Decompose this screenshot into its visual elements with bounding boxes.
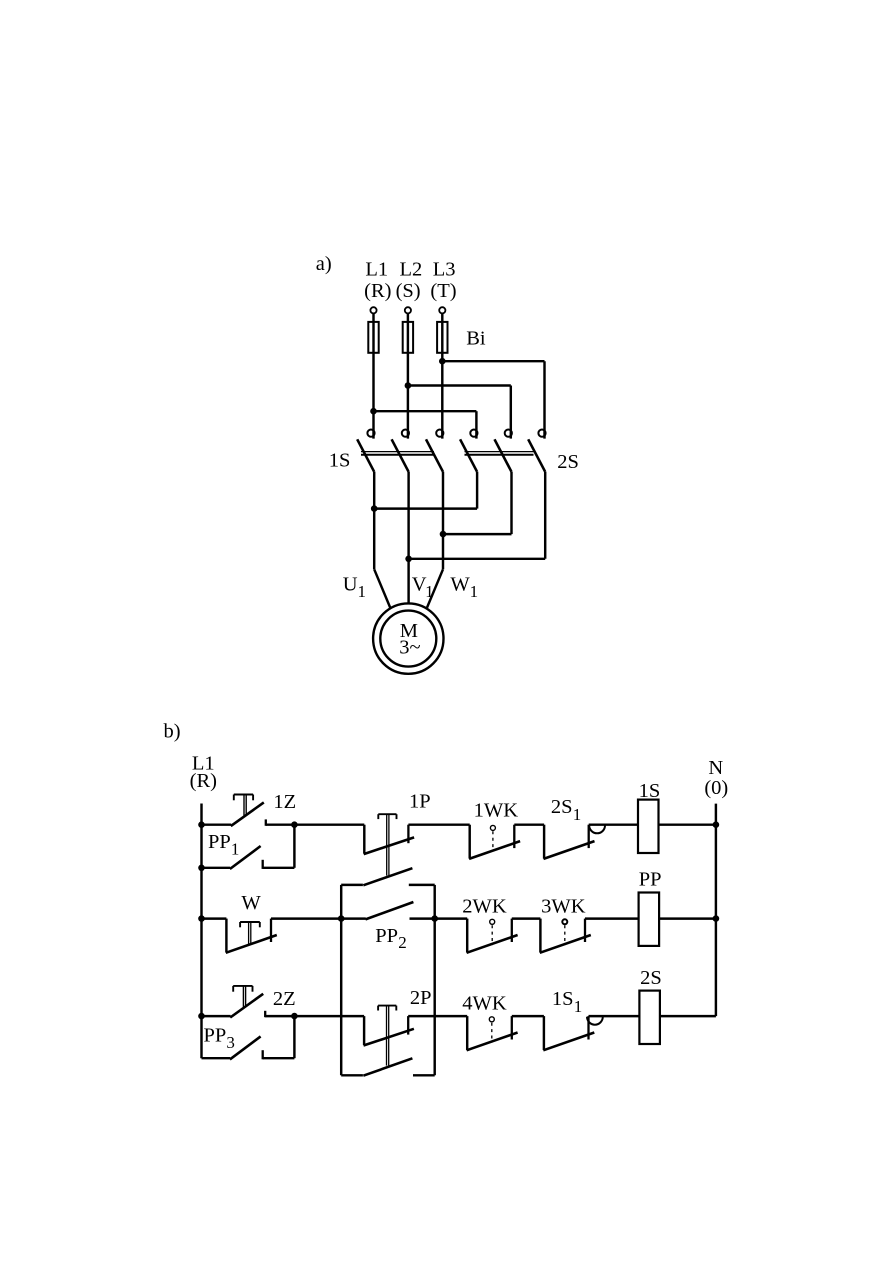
svg-text:PP: PP — [639, 869, 662, 891]
svg-text:1S: 1S — [552, 988, 574, 1010]
svg-text:(R): (R) — [364, 280, 391, 302]
svg-text:PP: PP — [375, 925, 398, 947]
svg-text:4WK: 4WK — [462, 992, 507, 1014]
svg-text:2S: 2S — [557, 451, 579, 473]
svg-text:1Z: 1Z — [273, 791, 296, 813]
svg-text:a): a) — [316, 253, 332, 275]
svg-text:(R): (R) — [190, 770, 217, 792]
svg-text:1WK: 1WK — [474, 799, 519, 821]
svg-text:Bi: Bi — [466, 328, 486, 350]
svg-text:L3: L3 — [433, 258, 456, 280]
svg-text:1S: 1S — [639, 780, 661, 802]
svg-text:3~: 3~ — [399, 637, 420, 659]
svg-text:1: 1 — [231, 840, 240, 859]
svg-text:L2: L2 — [400, 258, 423, 280]
svg-text:1P: 1P — [409, 791, 431, 813]
svg-text:3: 3 — [226, 1033, 235, 1052]
svg-text:3WK: 3WK — [541, 895, 586, 917]
svg-text:(0): (0) — [704, 777, 728, 799]
svg-text:1: 1 — [573, 805, 582, 824]
svg-text:1S: 1S — [329, 450, 351, 472]
svg-text:2: 2 — [398, 933, 407, 952]
svg-text:1: 1 — [358, 582, 367, 601]
svg-text:W: W — [450, 574, 470, 596]
svg-text:PP: PP — [204, 1024, 227, 1046]
svg-text:1: 1 — [574, 997, 583, 1016]
svg-text:1: 1 — [470, 582, 479, 601]
svg-text:1: 1 — [425, 582, 434, 601]
svg-text:N: N — [708, 757, 723, 779]
svg-text:W: W — [241, 892, 261, 914]
svg-text:L1: L1 — [365, 258, 388, 280]
svg-text:2WK: 2WK — [462, 895, 507, 917]
svg-text:PP: PP — [208, 831, 231, 853]
svg-text:(S): (S) — [396, 280, 421, 302]
svg-text:b): b) — [164, 721, 181, 743]
svg-text:(T): (T) — [430, 280, 456, 302]
svg-text:2S: 2S — [551, 796, 573, 818]
svg-text:2Z: 2Z — [273, 988, 296, 1010]
svg-text:U: U — [343, 574, 358, 596]
svg-text:2P: 2P — [410, 987, 432, 1009]
svg-text:2S: 2S — [640, 967, 662, 989]
